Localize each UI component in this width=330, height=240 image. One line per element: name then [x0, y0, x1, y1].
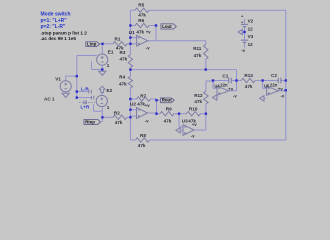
svg-text:R8: R8 [140, 133, 146, 138]
svg-text:R9: R9 [166, 107, 172, 112]
svg-text:R10: R10 [189, 107, 198, 112]
svg-text:L-R: L-R [81, 86, 89, 91]
svg-text:R11: R11 [193, 46, 202, 51]
svg-text:L+R: L+R [81, 105, 90, 110]
svg-text:V1: V1 [55, 76, 61, 81]
svg-text:Rout: Rout [162, 98, 173, 103]
svg-text:U3: U3 [182, 118, 188, 123]
svg-text:E1: E1 [108, 50, 114, 55]
svg-text:-v: -v [191, 134, 195, 139]
svg-text:47k: 47k [136, 30, 144, 35]
svg-text:12: 12 [248, 42, 254, 47]
svg-text:Linp: Linp [87, 41, 97, 46]
svg-text:1: 1 [107, 63, 110, 68]
svg-text:+v: +v [228, 86, 233, 91]
svg-text:+v: +v [192, 122, 197, 127]
svg-text:R7: R7 [140, 93, 146, 98]
svg-text:Rinp: Rinp [85, 119, 95, 124]
svg-text:R13: R13 [244, 73, 253, 78]
svg-text:47k: 47k [115, 120, 123, 125]
svg-text:47k: 47k [119, 81, 127, 86]
svg-text:.step param p list 1 2: .step param p list 1 2 [41, 31, 88, 36]
svg-text:-v: -v [146, 45, 150, 50]
svg-text:U2: U2 [130, 101, 136, 106]
svg-text:47k: 47k [120, 57, 128, 62]
svg-text:U1: U1 [129, 30, 135, 35]
svg-text:47k: 47k [194, 53, 202, 58]
svg-text:R1: R1 [115, 36, 121, 41]
svg-text:Mode switch: Mode switch [41, 12, 71, 18]
svg-text:47k: 47k [245, 84, 253, 89]
svg-text:+v: +v [145, 103, 150, 108]
svg-text:-v: -v [241, 48, 245, 53]
svg-text:C2: C2 [271, 73, 277, 78]
svg-text:-v: -v [145, 119, 149, 124]
svg-text:12: 12 [248, 27, 254, 32]
svg-text:R4: R4 [119, 74, 125, 79]
svg-text:47k: 47k [138, 13, 146, 18]
svg-text:47k: 47k [164, 119, 172, 124]
svg-text:+: + [241, 20, 243, 24]
svg-text:V2: V2 [248, 18, 254, 23]
svg-text:47k: 47k [194, 99, 202, 104]
svg-text:+v: +v [146, 29, 151, 34]
svg-text:R5: R5 [138, 3, 144, 8]
svg-text:.ac dec 99 1 1e5: .ac dec 99 1 1e5 [41, 36, 77, 41]
svg-text:+v: +v [278, 86, 283, 91]
svg-text:R6: R6 [138, 18, 144, 23]
svg-text:Lout: Lout [162, 24, 172, 29]
svg-text:R12: R12 [194, 93, 203, 98]
svg-text:C1: C1 [222, 74, 228, 79]
svg-text:22n: 22n [220, 82, 228, 87]
svg-text:47k: 47k [138, 143, 146, 148]
svg-text:22n: 22n [270, 82, 278, 87]
svg-text:E2: E2 [107, 88, 113, 93]
svg-text:1: 1 [107, 105, 110, 110]
svg-text:AC 1: AC 1 [44, 97, 55, 102]
svg-text:R2: R2 [114, 110, 120, 115]
svg-text:V3: V3 [248, 34, 254, 39]
svg-text:R3: R3 [120, 50, 126, 55]
svg-text:p=2: "L-R": p=2: "L-R" [41, 24, 67, 30]
